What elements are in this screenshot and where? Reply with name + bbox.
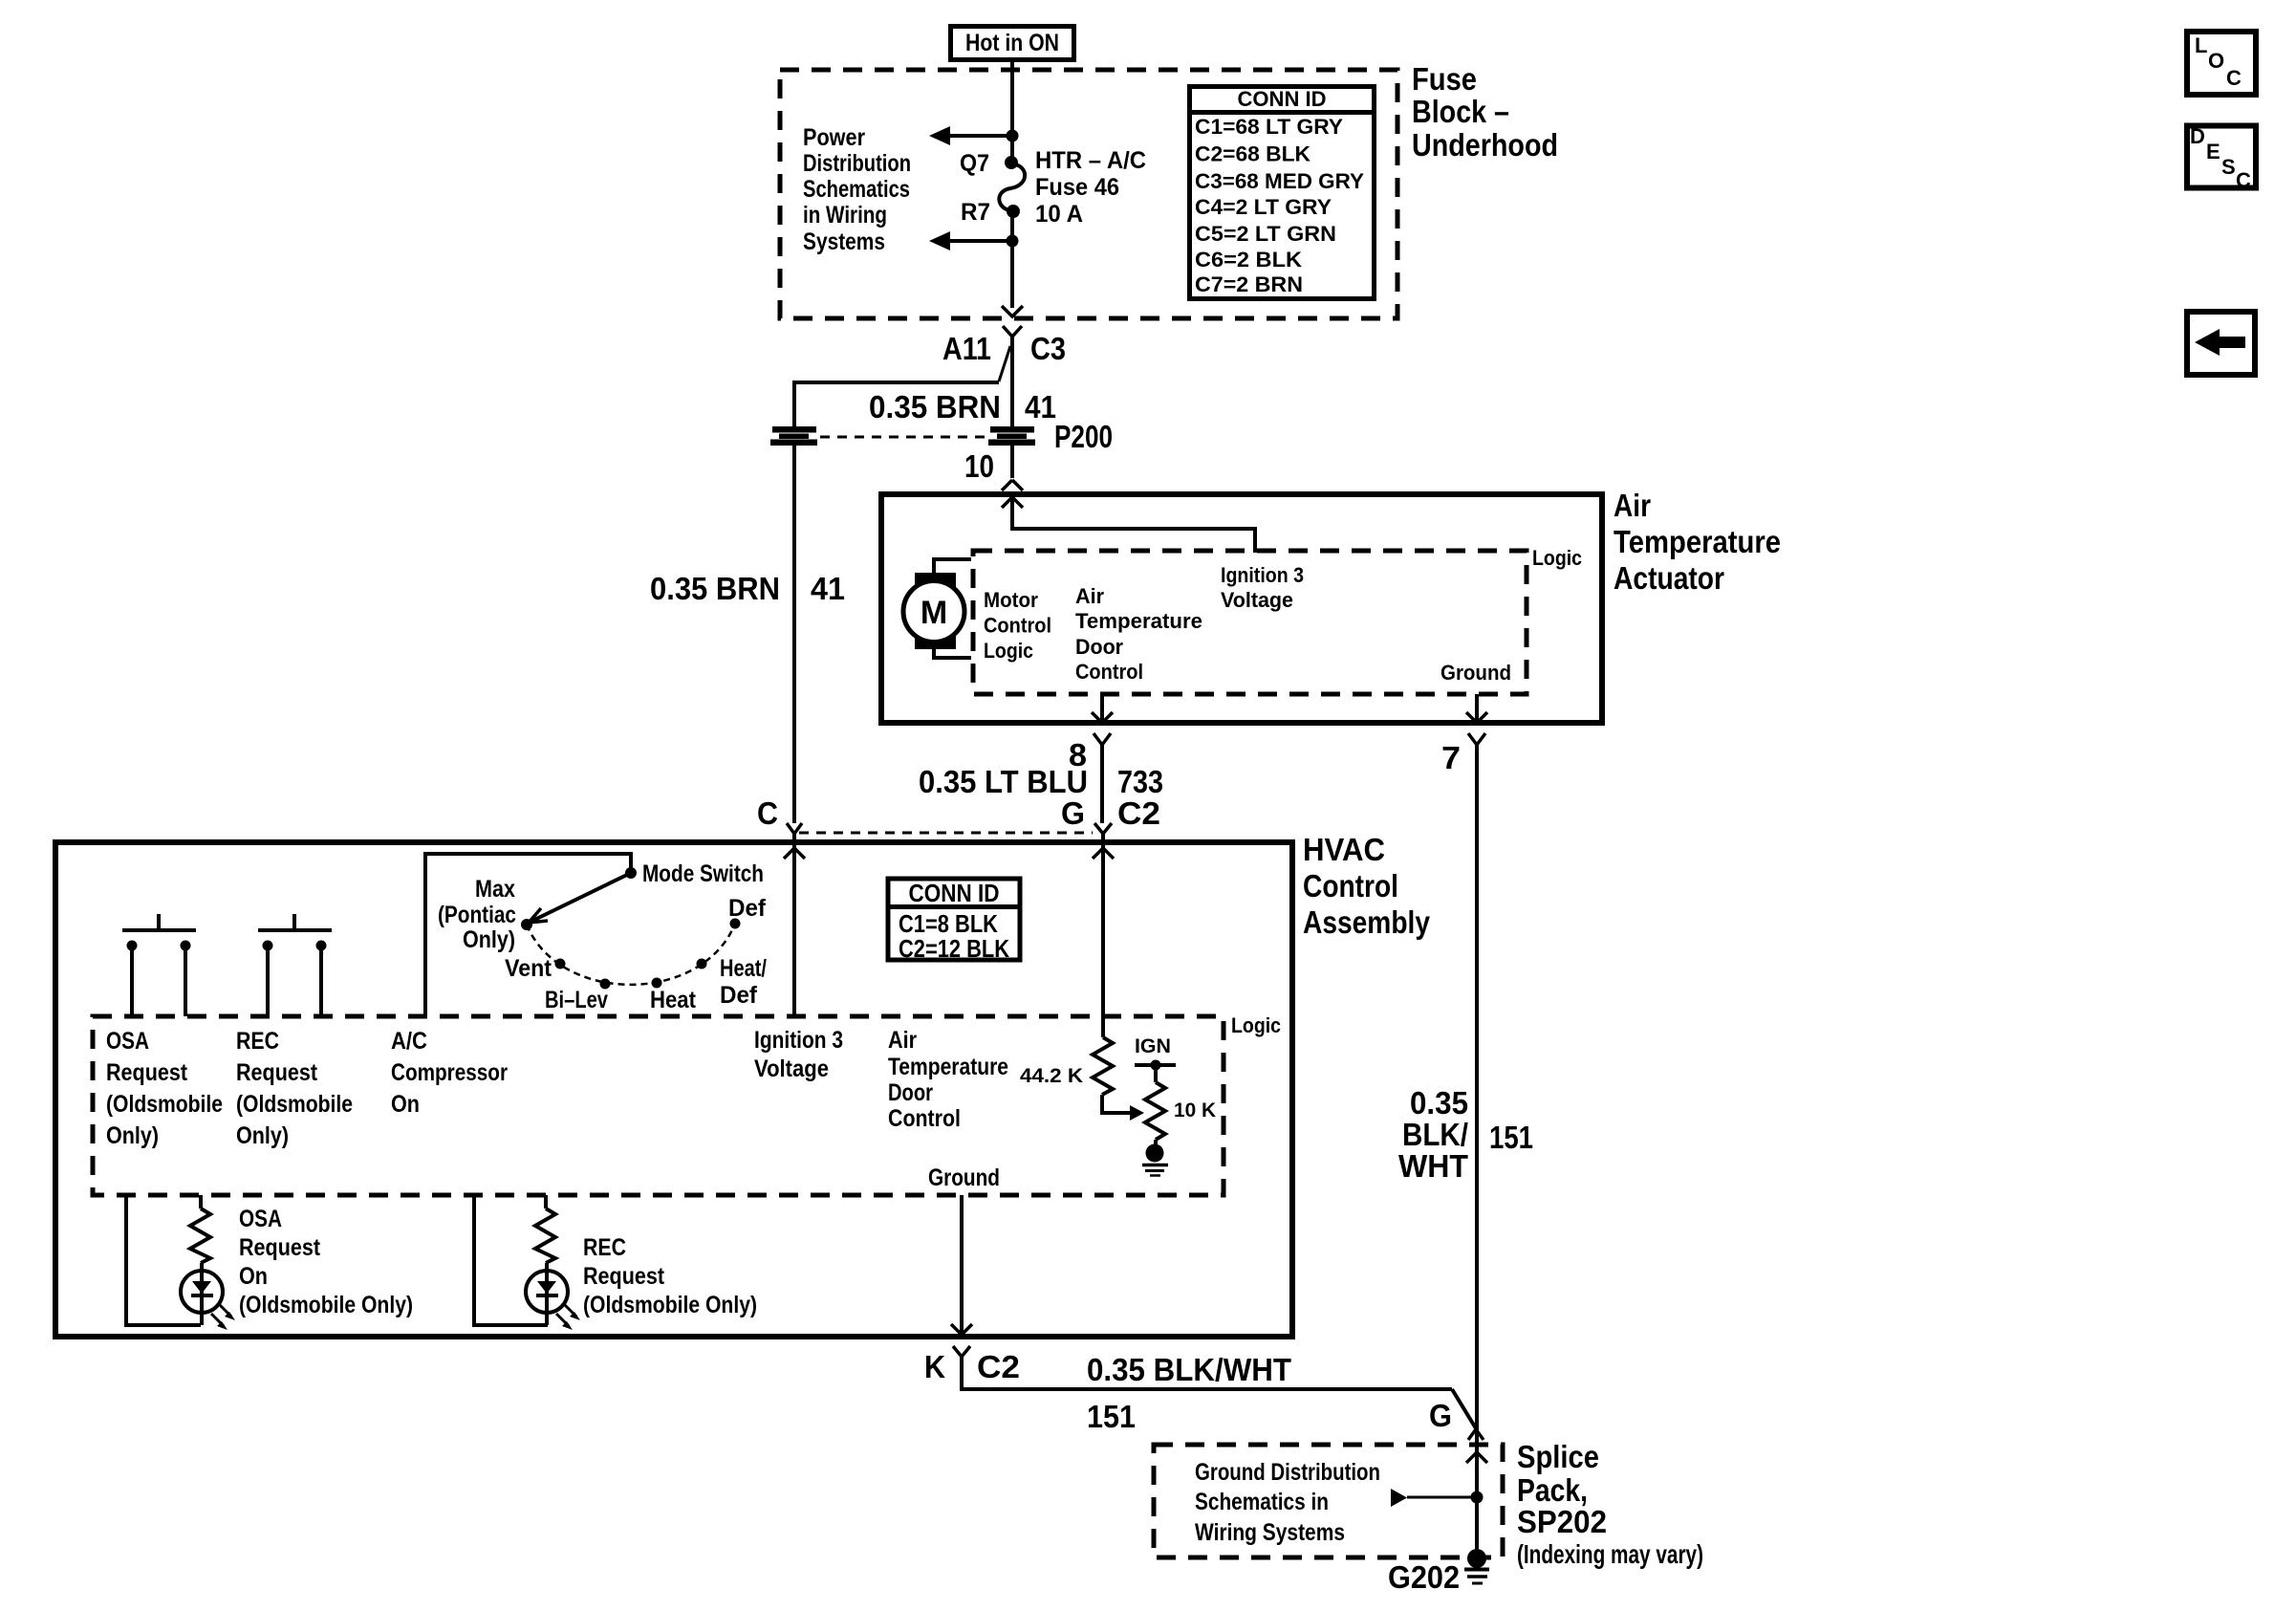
label: Power Distribution Schematics in Wiring Systems	[803, 124, 911, 255]
label: Ignition 3 Voltage (HVAC)	[754, 1027, 843, 1082]
svg-text:Wiring Systems: Wiring Systems	[1195, 1519, 1345, 1546]
svg-text:(Oldsmobile: (Oldsmobile	[106, 1091, 223, 1118]
label: Splice Pack, SP202 (Indexing may vary)	[1517, 1439, 1703, 1569]
svg-text:C: C	[757, 795, 778, 831]
connector arrow into splice pack	[1466, 1452, 1487, 1463]
svg-text:(Oldsmobile Only): (Oldsmobile Only)	[583, 1292, 757, 1318]
svg-text:Underhood: Underhood	[1412, 127, 1558, 163]
wire: actuator door control pin 8 down to HVAC pin G	[1092, 694, 1113, 823]
wire: right run into actuator pin 10	[1010, 446, 1014, 478]
LED: OSA Request On indicator	[181, 1263, 235, 1330]
fuse F46: HTR A/C 10A element	[999, 156, 1025, 218]
svg-text:Fuse: Fuse	[1412, 61, 1477, 97]
svg-text:Ground: Ground	[1440, 661, 1511, 685]
node: Vent	[555, 959, 566, 969]
svg-text:Fuse 46: Fuse 46	[1035, 174, 1119, 201]
label: REC Request (Oldsmobile Only) input	[236, 1028, 353, 1149]
svg-text:Logic: Logic	[1532, 546, 1582, 570]
svg-text:Splice: Splice	[1517, 1439, 1599, 1474]
svg-text:Def: Def	[728, 895, 767, 922]
node: Heat	[652, 978, 662, 989]
table: CONN ID (HVAC)	[888, 879, 1020, 963]
svg-text:REC: REC	[236, 1028, 279, 1055]
svg-text:Temperature: Temperature	[1614, 524, 1781, 559]
svg-text:Temperature: Temperature	[888, 1054, 1008, 1080]
svg-text:A/C: A/C	[391, 1028, 427, 1055]
svg-text:Air: Air	[1614, 488, 1651, 523]
switch: mode switch wiper and feed wire	[425, 854, 637, 1016]
icon: LOC reference box	[2187, 32, 2256, 95]
wire: left 0.35 BRN run down to HVAC pin C	[792, 446, 796, 823]
connector fork at pin 10	[1002, 480, 1023, 490]
wire: lower branch to power distribution (left arrow)	[929, 231, 1019, 250]
resistor: OSA LED series	[190, 1208, 210, 1263]
svg-text:Pack,: Pack,	[1517, 1472, 1588, 1508]
pin label K / C2	[924, 1349, 1020, 1384]
wire: splice pack internal tap	[1391, 1489, 1484, 1507]
svg-text:G202: G202	[1388, 1559, 1460, 1595]
svg-text:L: L	[2195, 33, 2207, 57]
svg-text:IGN: IGN	[1135, 1035, 1171, 1057]
svg-text:Control: Control	[1303, 868, 1398, 903]
svg-text:Ground Distribution: Ground Distribution	[1195, 1459, 1380, 1486]
ground G202	[1464, 1549, 1489, 1583]
svg-text:Hot in ON: Hot in ON	[965, 30, 1059, 56]
icon: back arrow box	[2187, 312, 2255, 375]
svg-text:BLK/: BLK/	[1402, 1117, 1468, 1152]
ground: internal logic ground	[1142, 1144, 1168, 1176]
box: HVAC internal Logic (dashed)	[93, 1016, 1224, 1195]
svg-text:(Pontiac: (Pontiac	[438, 902, 516, 928]
svg-text:HVAC: HVAC	[1303, 832, 1385, 867]
label: REC Request (Oldsmobile Only)	[583, 1234, 757, 1318]
svg-text:C3=68 MED GRY: C3=68 MED GRY	[1195, 169, 1364, 193]
connector fork at HVAC pin C	[784, 823, 805, 1016]
svg-text:C2=12 BLK: C2=12 BLK	[899, 934, 1009, 963]
label: Motor Control Logic	[984, 588, 1051, 663]
svg-text:Q7: Q7	[960, 150, 989, 177]
svg-text:D: D	[2190, 124, 2205, 148]
connector A11/C3 female fork	[1003, 326, 1022, 426]
svg-text:O: O	[2208, 49, 2224, 73]
svg-text:Max: Max	[475, 876, 515, 903]
svg-text:Vent: Vent	[505, 955, 552, 982]
wire: fused ignition feed from Hot in ON	[1010, 60, 1014, 163]
svg-text:44.2 K: 44.2 K	[1020, 1065, 1083, 1087]
label: Air Temperature Actuator	[1614, 488, 1781, 596]
label: OSA Request On (Oldsmobile Only)	[239, 1206, 413, 1318]
svg-text:OSA: OSA	[239, 1206, 282, 1232]
table: CONN ID (fuse block)	[1189, 87, 1375, 299]
svg-text:Air: Air	[1075, 584, 1104, 608]
connector fork at HVAC pin G	[1093, 823, 1114, 1037]
svg-text:Logic: Logic	[1231, 1013, 1281, 1037]
svg-text:10: 10	[964, 448, 994, 484]
svg-text:41: 41	[1025, 389, 1056, 425]
svg-text:E: E	[2206, 140, 2220, 163]
label: Max (Pontiac Only)	[438, 876, 516, 953]
pin label G / C2	[1061, 795, 1160, 831]
svg-text:Heat/: Heat/	[720, 955, 767, 982]
label: Fuse Block - Underhood	[1412, 61, 1558, 163]
svg-text:10 K: 10 K	[1174, 1099, 1216, 1121]
switch: OSA request pushbutton	[122, 914, 196, 1016]
dashed grommet link P200	[820, 436, 985, 439]
svg-text:Power: Power	[803, 124, 865, 151]
svg-text:Door: Door	[888, 1079, 933, 1106]
svg-text:C4=2 LT GRY: C4=2 LT GRY	[1195, 195, 1332, 219]
label: HVAC Control Assembly	[1303, 832, 1431, 940]
svg-text:Heat: Heat	[650, 987, 697, 1013]
svg-text:C: C	[2226, 66, 2242, 90]
svg-text:K: K	[924, 1349, 945, 1384]
svg-text:Schematics: Schematics	[803, 176, 910, 203]
svg-text:0.35 BRN: 0.35 BRN	[869, 389, 1001, 425]
label: Air Temperature Door Control (HVAC)	[888, 1027, 1008, 1132]
wire: branch from A11 to left run	[794, 346, 1010, 426]
motor M1: air temperature door motor	[903, 559, 971, 658]
svg-text:(Indexing may vary): (Indexing may vary)	[1517, 1539, 1703, 1569]
svg-text:Temperature: Temperature	[1075, 609, 1202, 633]
svg-text:WHT: WHT	[1398, 1148, 1468, 1184]
svg-text:R7: R7	[961, 199, 990, 226]
label: Ignition 3 Voltage (actuator)	[1221, 563, 1304, 612]
node: Bi-Lev	[600, 979, 611, 990]
grommet P200 right half	[988, 426, 1035, 446]
svg-text:0.35 LT BLU: 0.35 LT BLU	[919, 764, 1088, 799]
svg-text:C: C	[2236, 168, 2251, 192]
svg-text:Assembly: Assembly	[1303, 904, 1431, 940]
svg-text:Actuator: Actuator	[1614, 560, 1724, 596]
svg-text:C1=68 LT GRY: C1=68 LT GRY	[1195, 115, 1343, 139]
box: actuator internal Logic (dashed)	[973, 551, 1527, 694]
svg-text:C3: C3	[1030, 331, 1066, 366]
svg-text:Def: Def	[720, 982, 758, 1009]
grommet P200 left half	[770, 426, 817, 446]
svg-text:733: 733	[1117, 764, 1163, 799]
svg-text:Control: Control	[1075, 660, 1143, 684]
dashed grommet link between C and G	[799, 832, 1093, 835]
svg-text:0.35: 0.35	[1410, 1085, 1468, 1121]
svg-text:Compressor: Compressor	[391, 1059, 508, 1086]
svg-text:C6=2 BLK: C6=2 BLK	[1195, 248, 1302, 272]
svg-text:Logic: Logic	[984, 639, 1033, 663]
value label: HTR - A/C Fuse 46 10 A	[1035, 147, 1146, 228]
connector arrow leaving fuse block	[1002, 306, 1023, 316]
svg-text:C2: C2	[1117, 795, 1160, 831]
svg-text:On: On	[239, 1263, 268, 1290]
svg-text:Ground: Ground	[928, 1165, 1000, 1191]
svg-text:Request: Request	[239, 1234, 321, 1261]
svg-text:Request: Request	[106, 1059, 188, 1086]
label: OSA Request (Oldsmobile Only) input	[106, 1028, 223, 1149]
svg-text:(Oldsmobile: (Oldsmobile	[236, 1091, 353, 1118]
node: Def	[730, 919, 741, 929]
LED: REC Request indicator	[526, 1263, 580, 1330]
box: Air Temperature Actuator	[881, 494, 1602, 723]
box: Splice Pack SP202 (dashed)	[1154, 1445, 1503, 1557]
wire label: 0.35 BRN 41 (right run)	[869, 389, 1056, 425]
svg-text:REC: REC	[583, 1234, 626, 1261]
svg-text:S: S	[2221, 155, 2236, 179]
label: Air Temperature Door Control (actuator)	[1075, 584, 1202, 684]
label: Heat/Def	[720, 955, 767, 1009]
wire: OSA request on branch	[126, 1195, 201, 1325]
svg-text:Only): Only)	[236, 1122, 289, 1149]
svg-text:P200: P200	[1054, 419, 1113, 454]
svg-text:Door: Door	[1075, 635, 1123, 659]
wire: upper branch to power distribution (left arrow)	[929, 126, 1019, 145]
svg-text:151: 151	[1087, 1399, 1136, 1434]
svg-text:Ignition 3: Ignition 3	[1221, 563, 1304, 587]
potentiometer R10: 10 K	[1145, 1065, 1165, 1146]
wire label: 0.35 BLK/WHT 151 (right run)	[1398, 1085, 1533, 1184]
wire: REC request on branch	[474, 1195, 548, 1325]
box: Hot in ON power tag	[951, 27, 1074, 60]
svg-text:Distribution: Distribution	[803, 150, 911, 177]
svg-text:Only): Only)	[106, 1122, 159, 1149]
resistor R44: 44.2 K	[1093, 1037, 1144, 1121]
svg-text:Mode Switch: Mode Switch	[642, 860, 764, 887]
icon: DESC reference box	[2187, 124, 2256, 192]
svg-text:Schematics in: Schematics in	[1195, 1489, 1329, 1515]
svg-text:Only): Only)	[463, 926, 515, 953]
label: Ground Distribution Schematics in Wiring Systems	[1195, 1459, 1380, 1546]
svg-text:CONN ID: CONN ID	[909, 879, 1000, 907]
svg-text:Request: Request	[583, 1263, 665, 1290]
wire label: 0.35 BLK/WHT 151 (bottom)	[1087, 1352, 1291, 1434]
svg-text:151: 151	[1489, 1120, 1533, 1155]
svg-text:in Wiring: in Wiring	[803, 202, 887, 229]
wire: HVAC ground out pin K	[951, 1195, 1484, 1440]
svg-text:0.35 BRN: 0.35 BRN	[650, 571, 780, 606]
wire label: 0.35 LT BLU 733	[919, 764, 1163, 799]
svg-text:Control: Control	[984, 614, 1051, 638]
svg-text:CONN ID: CONN ID	[1238, 87, 1327, 111]
wiper arrow from Mode Switch to Max	[529, 873, 631, 923]
svg-text:0.35 BLK/WHT: 0.35 BLK/WHT	[1087, 1352, 1291, 1387]
svg-text:G: G	[1429, 1398, 1452, 1433]
svg-text:Air: Air	[888, 1027, 917, 1054]
wire label: 0.35 BRN 41 (left run)	[650, 571, 845, 606]
resistor: REC LED series	[535, 1208, 555, 1263]
svg-text:Systems: Systems	[803, 229, 885, 255]
svg-text:SP202: SP202	[1517, 1504, 1607, 1539]
svg-text:Control: Control	[888, 1105, 961, 1132]
svg-text:On: On	[391, 1091, 420, 1118]
label: A/C Compressor On	[391, 1028, 508, 1118]
node: Heat/Def	[697, 959, 707, 969]
svg-text:Block –: Block –	[1412, 94, 1509, 129]
wire: ignition feed inside actuator	[1002, 497, 1255, 553]
svg-text:Voltage: Voltage	[1221, 588, 1293, 612]
svg-text:OSA: OSA	[106, 1028, 149, 1055]
svg-text:Ignition 3: Ignition 3	[754, 1027, 843, 1054]
svg-text:41: 41	[811, 571, 845, 606]
box: HVAC Control Assembly	[55, 842, 1292, 1337]
box: Fuse Block - Underhood (dashed)	[780, 70, 1397, 318]
dashed arc of mode switch positions	[527, 924, 735, 985]
svg-text:Motor: Motor	[984, 588, 1038, 612]
svg-text:7: 7	[1441, 740, 1461, 775]
node: Max (Pontiac Only)	[521, 919, 532, 930]
svg-text:G: G	[1061, 795, 1085, 831]
wire: fuse output down to lower branch	[1010, 211, 1014, 308]
terminal: IGN supply bar	[1135, 1060, 1176, 1071]
svg-text:Bi–Lev: Bi–Lev	[545, 987, 608, 1013]
svg-text:(Oldsmobile Only): (Oldsmobile Only)	[239, 1292, 413, 1318]
svg-text:C7=2 BRN: C7=2 BRN	[1195, 272, 1303, 296]
svg-text:10 A: 10 A	[1035, 201, 1083, 228]
svg-text:A11: A11	[942, 331, 991, 366]
svg-text:C5=2 LT GRN: C5=2 LT GRN	[1195, 222, 1336, 246]
svg-text:Request: Request	[236, 1059, 318, 1086]
wire: actuator ground pin 7	[1466, 694, 1487, 1558]
svg-text:Voltage: Voltage	[754, 1056, 829, 1082]
svg-text:C2=68 BLK: C2=68 BLK	[1195, 142, 1310, 166]
switch: REC request pushbutton	[258, 914, 332, 1016]
svg-text:HTR – A/C: HTR – A/C	[1035, 147, 1146, 174]
svg-text:C2: C2	[977, 1349, 1020, 1384]
svg-text:M: M	[921, 595, 947, 631]
